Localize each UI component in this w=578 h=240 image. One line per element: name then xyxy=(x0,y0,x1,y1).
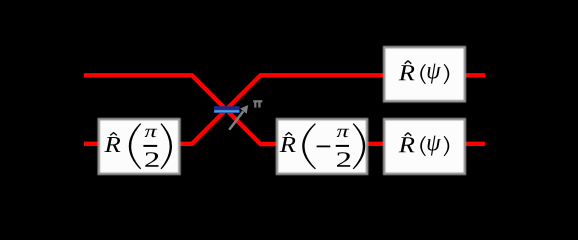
box4 lparen xyxy=(420,136,426,156)
box R(-pi/2) xyxy=(277,119,367,174)
label Rhat(psi) in box4 xyxy=(399,133,450,156)
label Rhat(-pi/2) in box2 xyxy=(280,123,366,169)
box1 bar xyxy=(143,145,157,147)
box1 lparen xyxy=(129,123,141,169)
wire stub between R(-pi/2) and bottom R(psi) xyxy=(366,142,384,146)
box2 minus xyxy=(317,146,331,148)
box4 rparen xyxy=(444,136,450,156)
phase arrow head xyxy=(240,105,248,114)
box1 rparen xyxy=(161,123,173,169)
box3 hat xyxy=(405,61,412,64)
box3 R xyxy=(399,65,415,80)
wire mode0 top-left rail, crossing down into R(-pi/2) xyxy=(84,75,277,144)
label Rhat(psi) in box3 xyxy=(399,61,450,84)
wire mode1 from R(pi/2), crossing up into top R(psi) xyxy=(176,75,384,144)
box4 psi xyxy=(428,136,441,156)
pi label near arrow xyxy=(253,101,262,107)
phase arrow shaft xyxy=(229,111,243,129)
label Rhat(pi/2) in box1 xyxy=(104,123,172,169)
box1 two xyxy=(145,152,158,166)
box3 rparen xyxy=(444,64,450,84)
box3 psi xyxy=(428,64,441,84)
box2 rparen xyxy=(353,123,366,169)
box2 R xyxy=(280,137,296,152)
box R(psi) top xyxy=(384,47,465,101)
box1 hat xyxy=(110,133,117,136)
wire stub right of top R(psi) xyxy=(465,73,485,77)
beamsplitter bar xyxy=(214,107,240,113)
box4 hat xyxy=(405,133,412,136)
box2 hat xyxy=(286,133,293,136)
box2 pi xyxy=(337,129,350,137)
wire mode1 left stub into R(pi/2) xyxy=(84,142,99,146)
box2 bar xyxy=(336,145,349,147)
box3 lparen xyxy=(420,64,426,84)
box1 pi xyxy=(145,129,158,137)
box1 R xyxy=(104,137,120,152)
box2 two xyxy=(337,152,350,166)
box2 lparen xyxy=(302,123,316,169)
box4 R xyxy=(399,137,415,152)
wire stub right of bottom R(psi) xyxy=(465,142,485,146)
box R(pi/2) xyxy=(99,119,180,174)
box R(psi) bottom xyxy=(384,119,465,174)
